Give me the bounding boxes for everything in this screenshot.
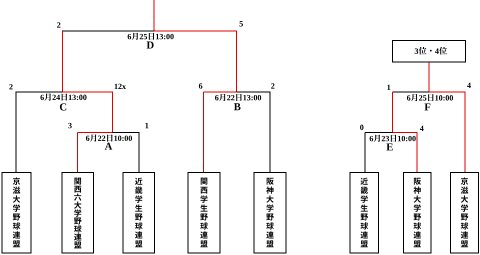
wire: match E winner up to match F [392,92,393,133]
wire: team6 box up to match E [365,133,366,173]
match A horizontal left half, winner red [78,132,114,133]
label 6月23日10:00 (match E) [370,136,373,141]
wire: team1 box up to match C [16,92,17,173]
match D horizontal (final) left half [62,31,154,32]
label D [147,42,154,49]
score 1 (match A right) [145,123,148,128]
score 4 (match F right) [467,83,471,88]
wire: match A winner up to match C [112,92,113,133]
label 3位・4位 [415,48,419,54]
label C [60,103,66,110]
wire: team2 box up to match A (red winner) [77,133,78,173]
label 6月25日10:00 (match F) [407,95,410,100]
score 3 (match A left) [68,123,71,128]
match F horizontal left half [393,92,430,93]
match C horizontal right half, winner red [63,92,114,93]
score 12x (match C right) [115,84,118,89]
score 2 (match D left) [57,22,60,27]
team5 box 阪神大学野球連盟 [254,173,286,254]
team2 box 関西六大学野球連盟 [62,173,94,254]
score 1 (match F left) [387,85,390,90]
team6 box 近畿学生野球連盟 [350,173,379,254]
wire: team5 box up to match B [270,92,271,173]
score 5 (match D right) [240,21,243,26]
label F [425,103,431,110]
match B horizontal right half [237,92,271,93]
team7 box 阪神大学野球連盟 [404,173,432,254]
label 6月25日13:00 (match D) [128,34,131,39]
champion winner line (red, match D winner) [154,0,155,32]
score 0 (match E left) [360,125,363,130]
3rd-4th place box [393,41,466,63]
label 6月24日13:00 (match C) [40,95,43,100]
wire: team3 box up to match A [139,133,140,173]
match C horizontal left half [16,92,63,93]
label E [386,143,392,150]
match E horizontal right half, winner red [393,132,418,133]
label B [234,103,241,110]
wire: team7 box up to match E (red winner) [417,133,418,173]
wire: match C winner up to match D [62,31,63,92]
match A horizontal right half [113,132,140,133]
score 2 (match C left) [9,84,12,89]
score 4 (match E right) [420,126,424,131]
wire: team8 box up to match F (red winner) [465,92,466,173]
match E horizontal left half [365,132,393,133]
label A [105,143,112,150]
label 6月22日10:00 (match A) [86,136,89,141]
wire: match F winner up to 3rd-4th box [429,62,430,92]
score 6 (match B left) [199,83,202,88]
wire: team4 box up to match B (red winner) [203,92,204,173]
score 2 (match B right) [271,83,274,88]
match D horizontal (final) right half, winner red [154,31,237,32]
match F horizontal right half, winner red [429,92,466,93]
label 6月22日13:00 (match B) [215,95,218,100]
team8 box 京滋大学野球連盟 [451,173,479,254]
team3 box 近畿学生野球連盟 [123,173,155,254]
match B horizontal left half, winner red [204,92,237,93]
team1 box 京滋大学野球連盟 [2,173,31,254]
wire: match B winner up to match D [236,31,237,92]
team4 box 関西学生野球連盟 [188,173,220,254]
